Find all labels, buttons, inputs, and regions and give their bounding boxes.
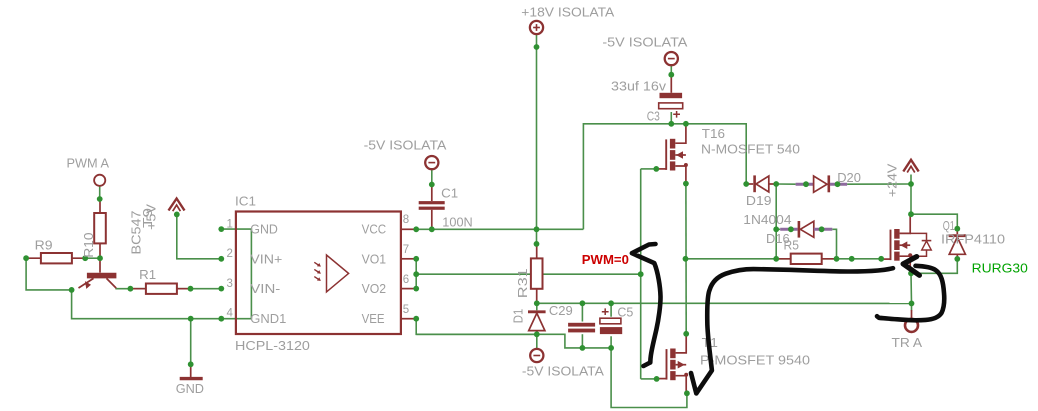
wire D1 to -5V circle	[536, 331, 538, 349]
ground symbol GND	[180, 364, 203, 378]
wire R9 left to emitter	[26, 258, 72, 290]
wire Q2 source down to TR A	[910, 273, 913, 310]
wire R1 right to VIN- pin3	[177, 288, 221, 290]
pin stub IC1 right y=288.6	[401, 288, 416, 290]
svg-text:100N: 100N	[442, 215, 472, 230]
transistor T9 BC547	[79, 258, 117, 289]
wire C1 top to -5V circle	[431, 170, 433, 185]
svg-text:P-MOSFET 9540: P-MOSFET 9540	[700, 353, 810, 368]
wire gate vertical	[640, 169, 642, 379]
svg-text:R9: R9	[35, 238, 53, 253]
svg-text:2: 2	[227, 248, 233, 260]
wire T1 gate stub	[641, 378, 657, 380]
svg-text:+24V: +24V	[885, 163, 900, 197]
svg-text:1N4004: 1N4004	[743, 212, 791, 227]
wire C5 bottom to T1 source loop	[611, 336, 687, 407]
supply symbol -5V ISOLATA top right	[665, 52, 678, 65]
wire PWM A pad to R10	[99, 186, 101, 199]
svg-text:RURG30: RURG30	[972, 261, 1028, 276]
svg-text:GND: GND	[250, 223, 278, 237]
wire R5 line right	[823, 258, 882, 260]
resistor R31	[531, 258, 543, 288]
svg-text:HCPL-3120: HCPL-3120	[235, 338, 310, 353]
svg-text:C1: C1	[441, 185, 458, 200]
capacitor C1 100N	[419, 185, 445, 230]
svg-text:3: 3	[227, 278, 233, 290]
wire R9 right to base node	[85, 257, 100, 259]
svg-text:6: 6	[403, 274, 409, 286]
wire D20 to +24V column	[847, 183, 911, 185]
wire C29 top lead	[581, 303, 583, 321]
wire C29 bottom lead	[581, 334, 583, 348]
wire VEE down and right	[416, 319, 611, 348]
wire R5 line left	[686, 258, 790, 260]
wire D19 D20 row	[776, 183, 795, 185]
wire C3 bottom to top rail	[670, 112, 672, 124]
body diode of Q1	[910, 233, 931, 256]
wire emitter to GND rail	[72, 290, 252, 319]
wire +18V riser to top rail	[583, 124, 746, 230]
diode RURG30 vertical	[949, 229, 966, 259]
wire +5V arrow to VIN+ pin2	[177, 214, 222, 258]
svg-text:R5: R5	[784, 238, 799, 253]
transistor T16 N-MOSFET 540	[656, 124, 688, 183]
resistor R10	[94, 213, 106, 243]
wire T16 source to T1 drain	[685, 184, 687, 334]
svg-text:33uf 16v: 33uf 16v	[611, 79, 667, 94]
svg-text:IC1: IC1	[235, 193, 256, 208]
svg-text:R1: R1	[139, 267, 156, 282]
wire pin1 GND to GND1 inner wire	[221, 229, 251, 319]
wire diode mid node down	[775, 184, 777, 259]
svg-text:PWM=0: PWM=0	[582, 252, 629, 267]
capacitor C3 33uf 16V polarized	[659, 75, 683, 118]
svg-text:7: 7	[403, 244, 409, 256]
svg-text:C29: C29	[549, 303, 573, 318]
wire C5 top lead	[610, 303, 612, 316]
annotation marker loop around TR A	[877, 266, 944, 320]
svg-text:GND: GND	[176, 381, 204, 396]
diode D19	[746, 175, 776, 192]
wire long mid rail R31 to TR A	[537, 302, 912, 304]
supply arrow +5V	[169, 199, 185, 212]
svg-text:R10: R10	[81, 233, 96, 258]
wire VEE rail through D1	[416, 333, 537, 335]
pin stub IC1 right y=258.8	[401, 258, 416, 260]
supply symbol -5V ISOLATA bottom	[530, 349, 543, 362]
resistor R10 lead bottom	[99, 243, 101, 258]
svg-text:VIN+: VIN+	[250, 252, 282, 266]
svg-text:1: 1	[227, 218, 233, 230]
resistor R5	[776, 254, 837, 264]
capacitor C5 polarized	[600, 308, 622, 334]
svg-text:GND1: GND1	[250, 312, 286, 326]
capacitor C29	[568, 323, 595, 333]
svg-text:TR A: TR A	[892, 335, 923, 350]
svg-text:D19: D19	[746, 193, 772, 208]
svg-text:C3: C3	[647, 108, 660, 123]
svg-text:D20: D20	[837, 170, 861, 185]
supply symbol -5V ISOLATA left	[425, 156, 438, 169]
pin stub IC1 right y=318.7	[401, 318, 416, 320]
wire pin8 VCC to +18V rail	[416, 228, 583, 230]
wire GND tap down	[190, 319, 192, 365]
annotation marker arrow at PWM=0	[632, 244, 661, 366]
annotation marker arrow down at T1	[691, 268, 893, 393]
svg-text:VEE: VEE	[362, 312, 385, 326]
svg-text:VCC: VCC	[362, 223, 387, 237]
resistor R1	[131, 284, 192, 294]
svg-text:PWM A: PWM A	[67, 155, 110, 170]
svg-text:T16: T16	[702, 126, 725, 141]
svg-text:+5V: +5V	[144, 204, 159, 230]
annotation marker arrowhead at Q1	[903, 257, 919, 276]
pin stub IC1 right y=229.3	[401, 228, 416, 230]
wire RURG30 bottom loop	[911, 259, 957, 273]
connector pad PWM A	[94, 175, 105, 186]
svg-text:N-MOSFET 540: N-MOSFET 540	[701, 142, 800, 157]
svg-text:R31: R31	[515, 268, 530, 298]
svg-text:-5V ISOLATA: -5V ISOLATA	[364, 138, 447, 153]
wire D16 left stub	[776, 228, 780, 230]
wire -5V isolata to C3	[670, 66, 672, 75]
wire D16 right down	[832, 229, 836, 258]
svg-text:D1: D1	[510, 309, 525, 324]
diode D1 vertical	[528, 312, 546, 331]
wire +24V arrow down	[910, 175, 912, 215]
svg-text:VO2: VO2	[362, 282, 387, 296]
diode D16 1N4004	[780, 221, 832, 238]
wire VO line to gates	[416, 273, 641, 275]
wire VO1-VO2 tie	[415, 259, 417, 289]
wire +18V circle down	[536, 35, 538, 244]
svg-text:VO1: VO1	[362, 252, 387, 266]
svg-text:IRFP4110: IRFP4110	[941, 232, 1005, 247]
op-amp U1 / optocoupler IC1 HCPL-3120 box	[236, 212, 401, 335]
svg-text:VIN-: VIN-	[250, 282, 280, 296]
svg-text:5: 5	[403, 304, 409, 316]
resistor R9	[26, 253, 87, 263]
svg-text:+18V ISOLATA: +18V ISOLATA	[521, 5, 614, 20]
supply arrow +24V	[903, 160, 918, 173]
wire collector to R1	[116, 287, 146, 290]
svg-text:-5V ISOLATA: -5V ISOLATA	[602, 35, 687, 50]
wire T16 gate stub	[641, 168, 657, 170]
transistor Q1 IRFP4110	[881, 214, 913, 273]
svg-text:-5V ISOLATA: -5V ISOLATA	[522, 364, 604, 379]
wire RURG30 top tap	[911, 214, 957, 229]
wire R31 bottom to D1	[536, 303, 538, 310]
diode D20 1N4004	[796, 175, 848, 192]
connector pad TR A	[905, 310, 918, 332]
supply symbol +18V ISOLATA	[530, 21, 543, 34]
resistor R10 lead top	[99, 199, 101, 213]
svg-text:C5: C5	[617, 305, 633, 320]
resistor R31 leads	[536, 244, 538, 259]
svg-text:8: 8	[403, 214, 409, 226]
svg-text:4: 4	[227, 308, 234, 320]
transistor T1 P-MOSFET 9540	[657, 334, 689, 393]
